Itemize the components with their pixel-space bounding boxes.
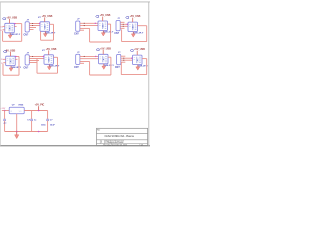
wire CN3 pin2 to K4	[120, 23, 128, 25]
wire +5V to K8	[136, 51, 138, 55]
wire +5V to K4	[132, 18, 134, 22]
connector CN1	[25, 22, 29, 32]
wire U1 GND pin	[16, 114, 18, 132]
wire K8 loop bottom	[121, 74, 146, 76]
pin junction K1	[14, 23, 15, 24]
svg-text:+5V_USB: +5V_USB	[6, 16, 17, 19]
ground K5	[9, 66, 13, 72]
svg-text:CN?: CN?	[114, 33, 119, 35]
ground K4	[131, 32, 135, 37]
wire K1 loop right	[21, 24, 23, 42]
svg-text:10uF: 10uF	[50, 125, 56, 127]
relay K7	[99, 54, 109, 64]
wire CN5 pin3	[80, 61, 90, 63]
wire CN5 pin1 to K7	[80, 55, 99, 57]
svg-text:Rev: Rev	[97, 129, 100, 131]
wire K1 loop left	[2, 31, 4, 41]
svg-text:+5V_USB: +5V_USB	[130, 15, 141, 18]
global label arrow K4	[126, 17, 129, 19]
svg-text:+5V_USB: +5V_USB	[100, 47, 111, 50]
wire CN2 pin3 drop	[89, 28, 91, 42]
wire K7 pin right	[108, 56, 111, 58]
wire +5V to K5	[9, 52, 11, 56]
svg-text:100n: 100n	[41, 125, 46, 127]
pin junction K3	[95, 23, 96, 24]
wire CN3 pin1 stub	[120, 21, 124, 23]
pin tick CN4	[32, 56, 33, 57]
wire K1 pin top right	[14, 23, 21, 25]
wire +5V to K6	[48, 50, 50, 54]
wire CN4 pin 3	[29, 60, 39, 62]
junction ground rail	[38, 131, 40, 133]
wire CN6 pin1 stub	[121, 55, 126, 57]
wire C3 bottom	[47, 121, 49, 132]
wire D+ stub K1	[2, 25, 4, 27]
wire K4 pin right	[138, 25, 147, 27]
pin tick CN1	[32, 23, 33, 24]
svg-text:G6K-2F-Y: G6K-2F-Y	[104, 65, 115, 67]
wire K2 loop left	[40, 31, 42, 40]
pin junction K6	[43, 56, 44, 57]
wire K5 pin right stub	[15, 58, 17, 60]
junction U1 gnd	[16, 131, 18, 133]
global label arrow K5	[3, 51, 6, 53]
svg-text:NASA SONDA INA - Plasma: NASA SONDA INA - Plasma	[105, 135, 135, 138]
wire K8 loop right	[146, 59, 148, 75]
relay K2	[40, 22, 50, 32]
pin tick CN1 b	[32, 25, 33, 26]
svg-text:2: 2	[101, 142, 102, 144]
wire K5 loop bottom	[3, 74, 19, 76]
wire K2 pin right	[50, 23, 54, 25]
wire CN1 pin 4	[29, 29, 33, 31]
regulator U1 7805	[9, 107, 24, 114]
svg-text:7805: 7805	[18, 105, 24, 107]
wire K6 pin right	[54, 56, 58, 58]
wire D+ stub K5	[3, 58, 5, 60]
svg-text:CN?: CN?	[74, 67, 79, 69]
wire C3 top	[47, 111, 49, 119]
pin tick CN2	[84, 23, 85, 24]
wire VIN to U1	[2, 110, 9, 112]
pin junction K5	[15, 56, 16, 57]
wire K6 loop bottom	[37, 72, 58, 74]
wire +5V to K1	[9, 19, 11, 23]
connector CN5	[76, 54, 80, 64]
wire ground rail	[5, 131, 48, 133]
relay K4	[128, 22, 138, 32]
wire CN6 pin3 to K8	[121, 59, 133, 61]
svg-text:+5V_USB: +5V_USB	[100, 14, 111, 17]
connector CN3	[116, 21, 120, 31]
global label arrow K1	[2, 18, 5, 20]
wire CN1 pin 3	[29, 27, 36, 29]
svg-text:G6K-2F-Y: G6K-2F-Y	[11, 67, 22, 69]
wire K1 pin right stub	[14, 25, 16, 27]
wire K8 pin right	[142, 58, 147, 60]
pin junction K4	[127, 24, 128, 25]
svg-text:G6K-2F-Y: G6K-2F-Y	[49, 65, 60, 67]
wire K4 loop bottom	[122, 41, 147, 43]
pin tick CN6 b	[123, 60, 124, 61]
svg-text:+5V_PIC: +5V_PIC	[35, 104, 45, 107]
svg-text:G6K-2F-Y: G6K-2F-Y	[10, 34, 21, 36]
wire D- stub K1	[2, 29, 4, 31]
wire CN6 pin4 stub	[121, 61, 126, 63]
global label arrow K3	[96, 16, 99, 18]
global label arrow K8	[130, 50, 133, 52]
pin tick CN6	[123, 58, 124, 59]
svg-text:+5V_USB: +5V_USB	[134, 48, 145, 51]
relay K3	[98, 21, 108, 31]
relay K6	[44, 55, 54, 65]
pin tick CN2 b	[84, 25, 85, 26]
connector CN2	[76, 21, 80, 31]
wire K1 loop bottom	[3, 40, 22, 42]
wire K3 loop bottom	[90, 41, 111, 43]
capacitor C1	[3, 119, 6, 121]
title block frame	[97, 128, 148, 145]
wire +5V to K7	[102, 50, 104, 54]
wire CN1 pin 2	[29, 25, 40, 27]
pin junction K2	[39, 23, 40, 24]
wire K6 loop right	[57, 57, 59, 73]
capacitor C2	[30, 119, 33, 121]
wire C1 top	[4, 111, 6, 119]
wire CN5 pin3 drop	[89, 62, 91, 76]
wire CN4 pin 2	[29, 58, 44, 60]
wire +5V to K2	[44, 17, 46, 21]
wire CN4 pin 1	[29, 56, 44, 58]
svg-text:1/1: 1/1	[141, 144, 143, 146]
pin tick CN3 b	[123, 26, 124, 27]
ground K7	[102, 64, 106, 70]
wire K4 loop left	[121, 29, 123, 41]
wire C2 bottom	[31, 121, 33, 132]
sheet border right	[148, 2, 150, 146]
sheet border left	[0, 2, 1, 146]
relay K8	[133, 55, 143, 65]
wire K3 loop right	[110, 24, 112, 42]
ground PSU	[15, 132, 19, 139]
wire CN1 pin 1	[29, 23, 40, 25]
svg-text:G6K-2F-Y: G6K-2F-Y	[103, 32, 114, 34]
wire K6 loop left	[36, 59, 38, 74]
svg-text:CN?: CN?	[74, 34, 79, 36]
svg-text:CN?: CN?	[24, 34, 29, 36]
svg-text:G6K-2F-Y: G6K-2F-Y	[45, 32, 56, 34]
wire CN2 pin1 to K3	[80, 22, 98, 24]
wire CN2 pin2 to K3	[80, 25, 98, 27]
svg-text:Thursday, November 05, 2015: Thursday, November 05, 2015	[103, 144, 127, 146]
wire K7 loop right	[110, 57, 112, 75]
ground K6	[47, 64, 51, 70]
junction +5V rail	[38, 110, 40, 112]
capacitor C3	[46, 119, 49, 121]
pin tick CN3	[123, 24, 124, 25]
wire K7 loop bottom	[90, 74, 111, 76]
connector CN6	[117, 54, 121, 64]
sheet border top	[0, 1, 150, 3]
wire CN2 pin4 stub	[80, 29, 84, 31]
wire K2 loop right	[53, 24, 55, 40]
wire CN5 pin4 stub	[80, 62, 84, 64]
relay K5	[6, 56, 16, 65]
wire K5 pin top right	[15, 56, 19, 58]
wire K8 loop left	[120, 62, 122, 74]
wire K5 loop left	[2, 64, 4, 75]
ground K1	[8, 33, 12, 39]
wire +5V_PIC drop	[38, 106, 40, 110]
wire CN4 pin 4	[29, 62, 36, 64]
svg-text:VO: VO	[19, 111, 22, 113]
svg-text:CN?: CN?	[115, 67, 120, 69]
wire CN5 pin2 to K7	[80, 58, 99, 60]
wire D- stub K5	[3, 62, 5, 64]
wire K4 loop right	[146, 26, 148, 42]
svg-text:G6K-2F-Y: G6K-2F-Y	[133, 33, 144, 35]
svg-text:+5V_USB: +5V_USB	[46, 48, 57, 51]
wire CN2 pin3	[80, 27, 90, 29]
wire CN6 pin2 to K8	[121, 57, 133, 59]
ground K8	[136, 65, 140, 71]
wire C2 top	[31, 111, 33, 119]
wire C1 bottom	[4, 121, 6, 132]
wire K5 loop right	[18, 57, 20, 76]
wire VOUT rail	[24, 110, 47, 112]
svg-text:CN?: CN?	[24, 67, 29, 69]
pin junction K7	[95, 56, 96, 57]
pin junction K8	[131, 58, 132, 59]
sheet border bottom	[0, 145, 150, 147]
wire CN3 pin4 stub	[120, 27, 124, 29]
wire K2 loop bottom	[41, 39, 54, 41]
connector CN4	[25, 55, 29, 65]
pin tick CN5	[84, 56, 85, 57]
global label arrow K7	[96, 49, 99, 51]
wire K3 pin right	[108, 23, 111, 25]
wire +5V to K3	[102, 17, 104, 21]
ground K3	[101, 31, 105, 37]
relay K1	[5, 23, 15, 33]
wire CN3 pin3 to K4	[120, 25, 128, 27]
ground K2	[43, 31, 47, 37]
svg-text:+5V_USB: +5V_USB	[42, 15, 53, 18]
junction VIN	[4, 110, 6, 112]
